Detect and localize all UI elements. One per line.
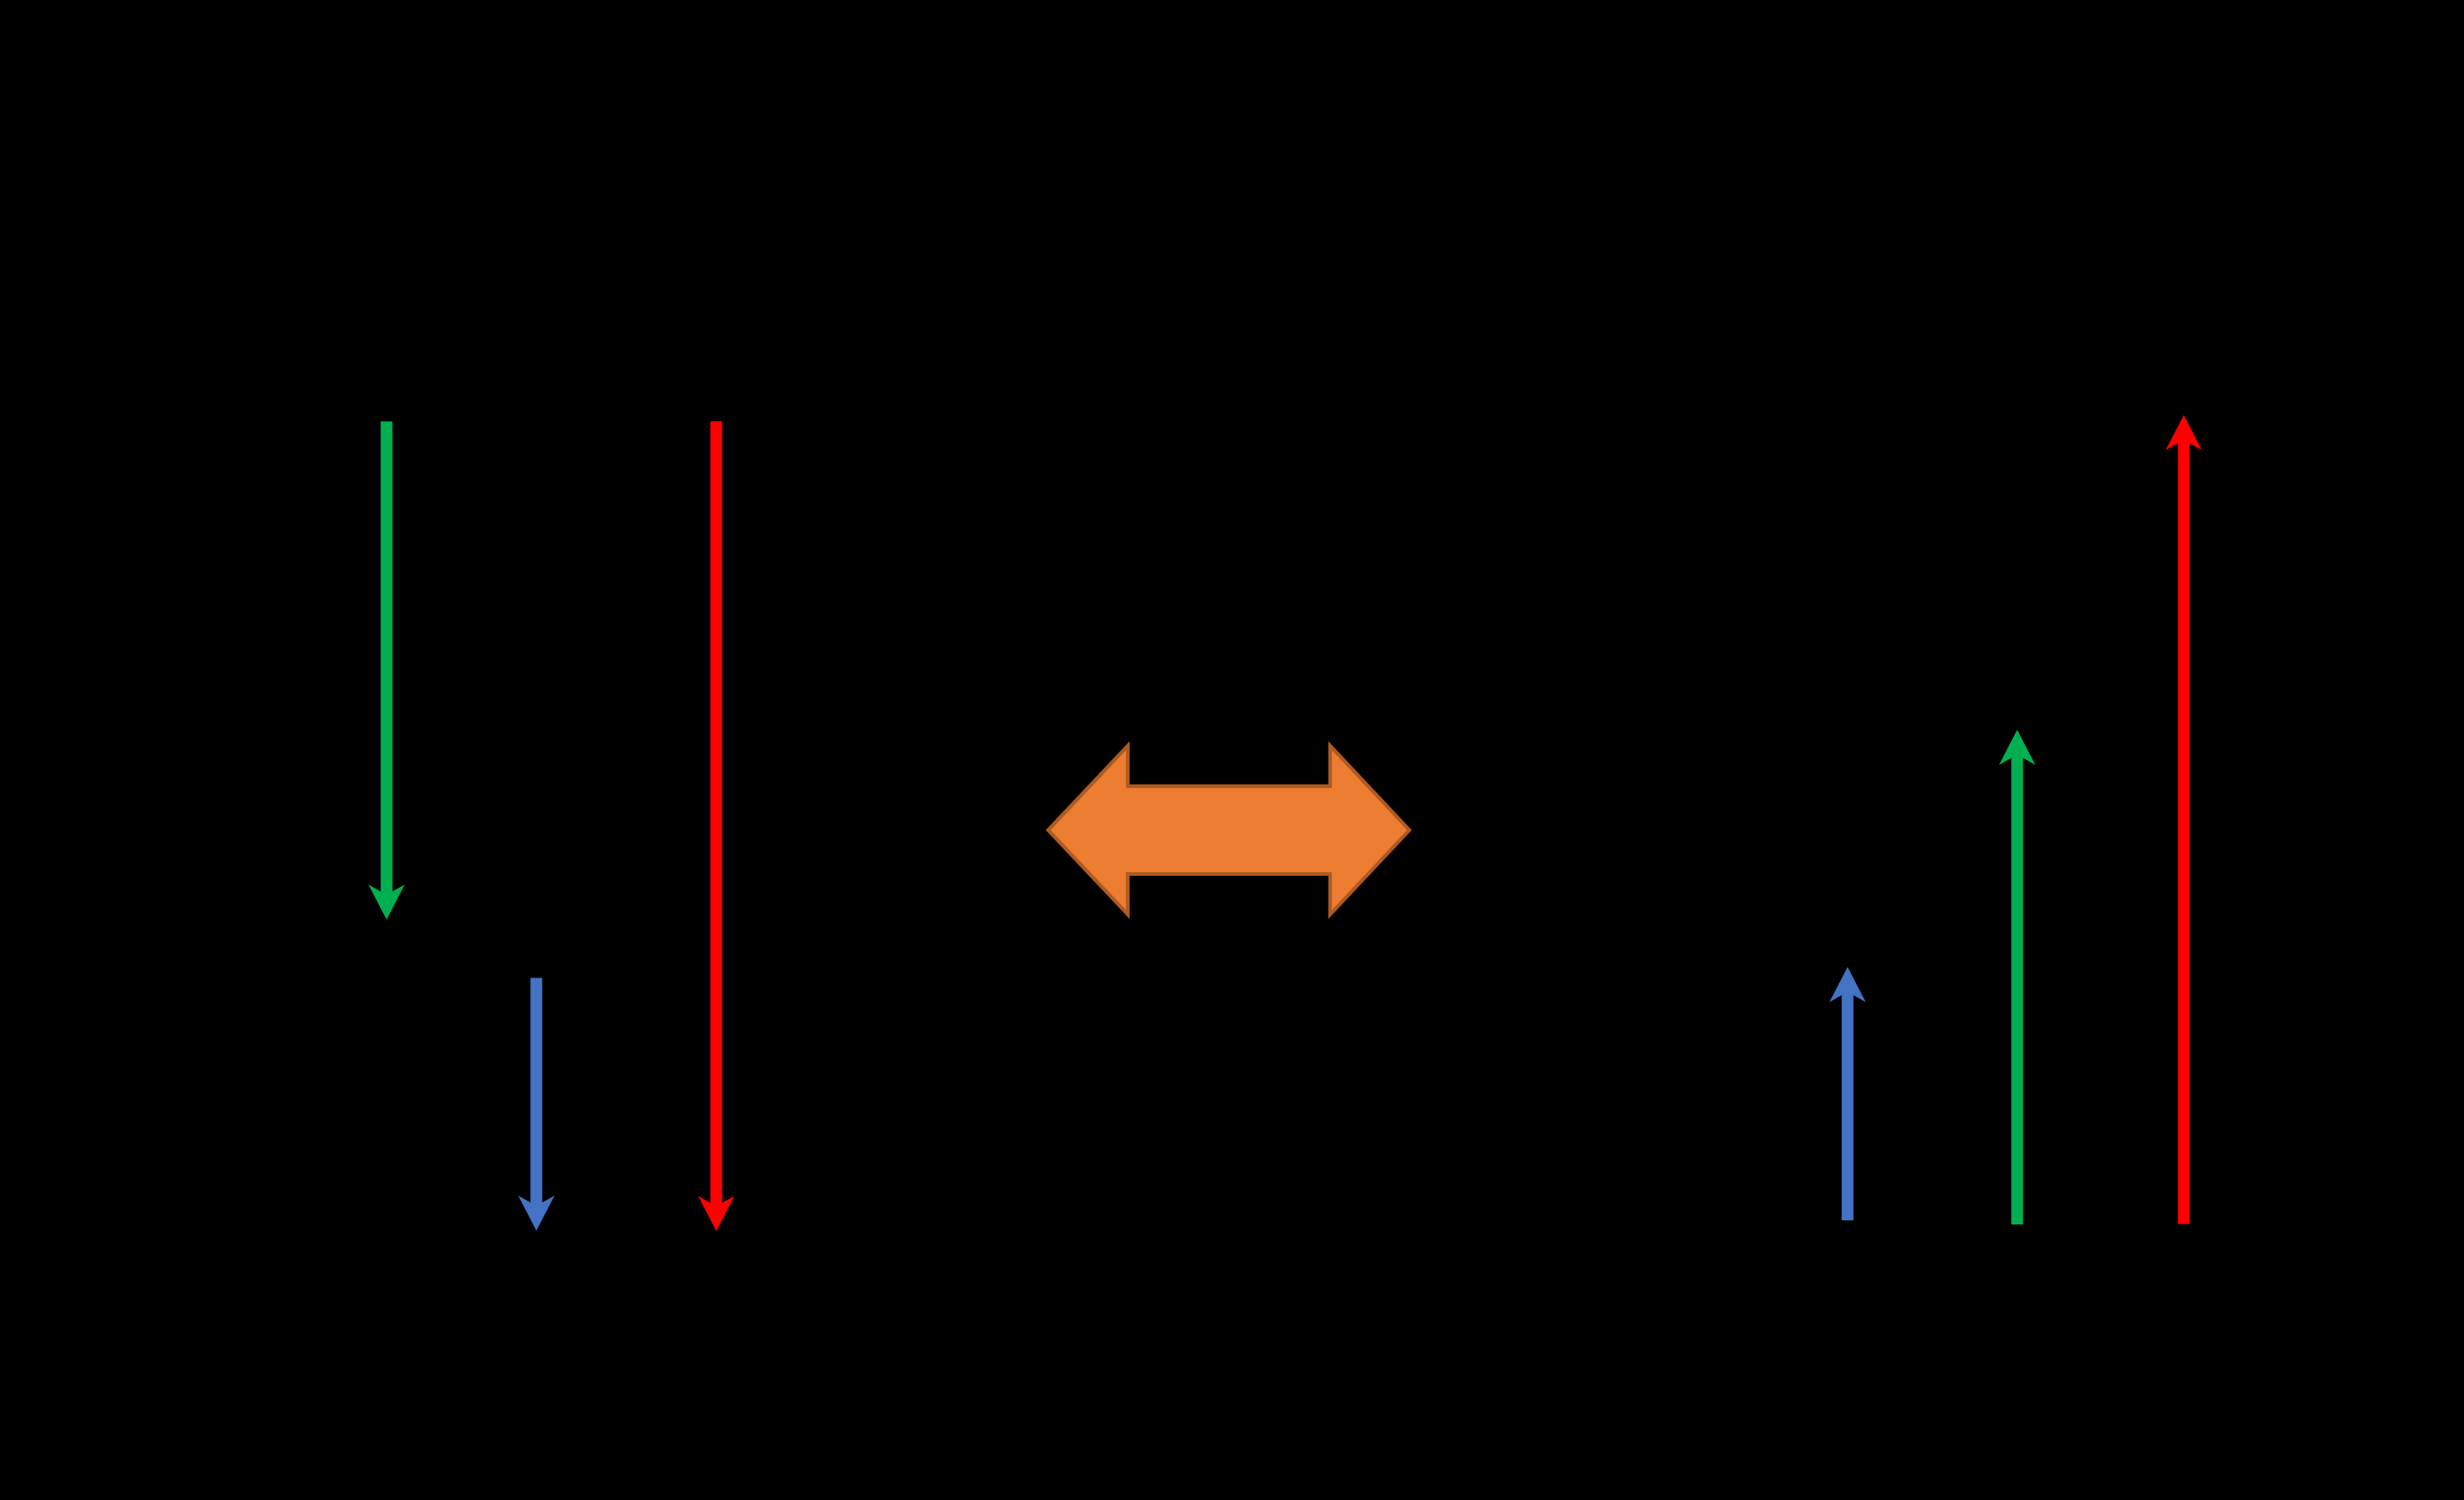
orange double-headed equivalence arrow (center) — [1049, 746, 1410, 914]
green emission arrow (left, pointing down) — [368, 421, 405, 920]
green absorption arrow (right, pointing up) — [1999, 730, 2035, 1225]
red absorption arrow (right, pointing up) — [2165, 415, 2201, 1224]
blue absorption arrow (right, pointing up) — [1829, 967, 1866, 1220]
blue emission arrow (left, pointing down) — [518, 978, 554, 1231]
red emission arrow (left, pointing down) — [698, 421, 734, 1230]
